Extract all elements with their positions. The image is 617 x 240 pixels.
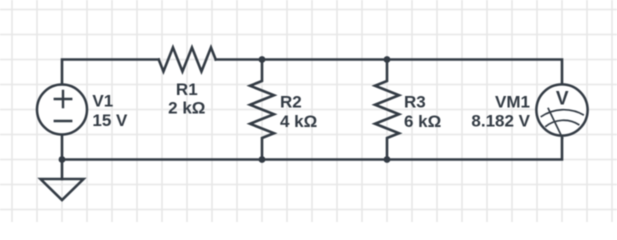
wire from R3 bottom node right and up to VM1 bottom terminal bbox=[387, 136, 562, 160]
wire bottom rail from R2 bottom node to R3 bottom node bbox=[262, 158, 387, 161]
ground bbox=[41, 179, 84, 200]
svg-text:15 V: 15 V bbox=[92, 111, 128, 130]
wire from R1 right terminal to R2 top node bbox=[216, 58, 262, 61]
voltage source V1 bbox=[37, 85, 87, 135]
wire from R3 top node right and down to VM1 top terminal bbox=[387, 60, 562, 85]
svg-text:V: V bbox=[556, 88, 569, 109]
svg-text:4 kΩ: 4 kΩ bbox=[280, 112, 317, 131]
svg-text:R3: R3 bbox=[404, 92, 426, 111]
svg-text:8.182 V: 8.182 V bbox=[471, 112, 530, 131]
svg-text:R2: R2 bbox=[280, 92, 302, 111]
wire stub from bottom rail node down to ground bbox=[61, 160, 64, 180]
wire from V1 top terminal up and right to R1 left terminal bbox=[62, 60, 159, 85]
svg-text:R1: R1 bbox=[176, 80, 198, 99]
wire from V1 bottom terminal down to bottom rail node bbox=[61, 135, 64, 160]
svg-text:2 kΩ: 2 kΩ bbox=[168, 99, 205, 118]
resistor R2 bbox=[250, 60, 274, 160]
wire top rail from R2 top node to R3 top node bbox=[262, 58, 387, 61]
junction at R2 top node bbox=[259, 56, 266, 63]
junction at R3 top node bbox=[384, 56, 391, 63]
svg-text:VM1: VM1 bbox=[495, 92, 530, 111]
resistor R1 bbox=[159, 48, 216, 72]
voltmeter VM1 bbox=[536, 84, 587, 138]
junction at R3 bottom node bbox=[384, 156, 391, 163]
junction at ground node bbox=[59, 156, 66, 163]
junction at R2 bottom node bbox=[259, 156, 266, 163]
svg-text:6 kΩ: 6 kΩ bbox=[404, 112, 441, 131]
resistor R3 bbox=[375, 60, 399, 160]
wire bottom rail from ground node to R2 bottom node bbox=[62, 158, 262, 161]
svg-text:V1: V1 bbox=[92, 91, 113, 110]
